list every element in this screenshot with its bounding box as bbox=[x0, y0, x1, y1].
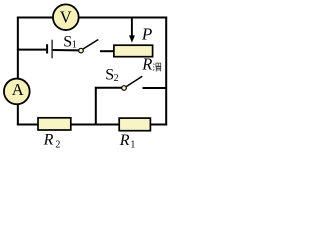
battery negative plate short bbox=[46, 44, 48, 53]
resistor R1 body bbox=[119, 118, 150, 131]
svg-text:R: R bbox=[119, 132, 130, 149]
svg-text:P: P bbox=[141, 24, 152, 43]
ammeter A bbox=[4, 79, 30, 105]
wire right vertical bbox=[165, 17, 167, 126]
wire middle junction vertical bbox=[95, 87, 97, 125]
label hua (CJK glyph drawn as strokes) bbox=[153, 63, 161, 72]
svg-text:R: R bbox=[43, 131, 54, 148]
svg-text:2: 2 bbox=[114, 73, 119, 84]
switch S2 blade open bbox=[126, 76, 142, 86]
switch S1 pivot circle bbox=[79, 48, 84, 53]
wire battery row left bbox=[17, 49, 46, 51]
wire S2 row left bbox=[95, 87, 122, 89]
svg-text:1: 1 bbox=[72, 39, 77, 50]
svg-text:A: A bbox=[12, 80, 24, 99]
svg-text:R: R bbox=[141, 54, 152, 73]
svg-text:V: V bbox=[60, 7, 72, 26]
wire S2 fixed contact to right wire bbox=[143, 87, 167, 89]
resistor R2 body bbox=[38, 118, 71, 130]
wire bottom node bbox=[17, 124, 167, 126]
rheostat slider arrowhead P bbox=[129, 35, 135, 42]
wire battery to switch S1 bbox=[53, 49, 79, 51]
wire left vertical bbox=[17, 17, 19, 126]
wire top node bbox=[17, 17, 167, 19]
svg-text:1: 1 bbox=[130, 140, 135, 151]
battery positive plate long bbox=[51, 40, 53, 59]
svg-text:2: 2 bbox=[55, 140, 60, 151]
switch S1 blade open bbox=[83, 40, 98, 49]
rheostat slider stem bbox=[131, 17, 133, 37]
wire S1 fixed contact to rheostat left terminal bbox=[100, 50, 115, 52]
switch S2 pivot circle bbox=[122, 86, 127, 91]
rheostat R_slide body bbox=[114, 45, 153, 57]
voltmeter V bbox=[53, 4, 79, 30]
